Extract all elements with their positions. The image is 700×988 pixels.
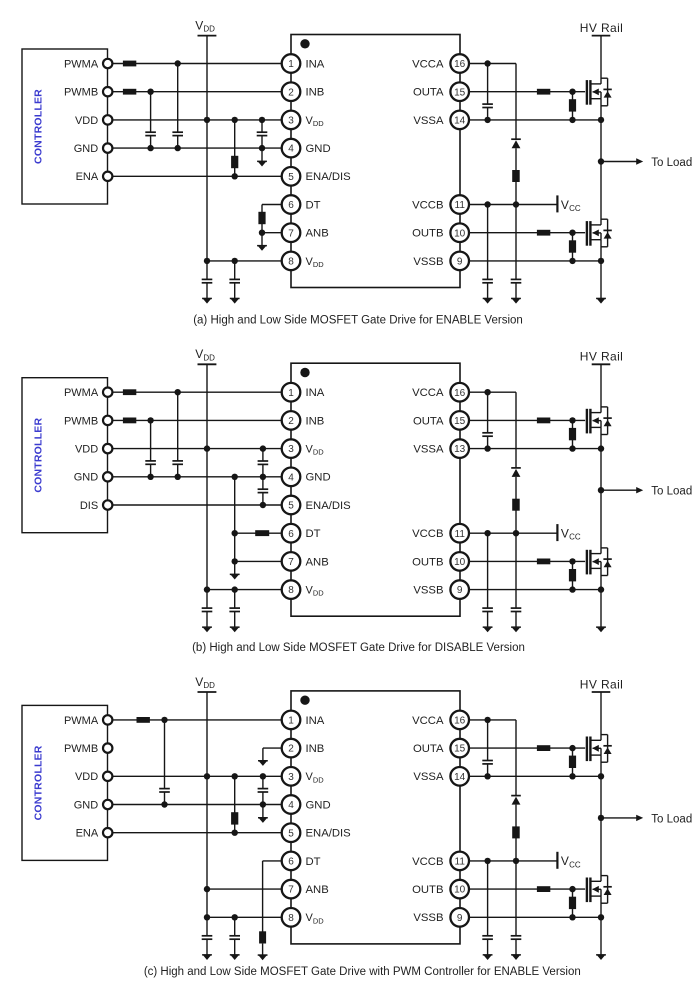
svg-text:5: 5 [288,172,294,183]
svg-text:To Load: To Load [651,157,692,169]
svg-text:VCCA: VCCA [412,715,444,727]
svg-text:CONTROLLER: CONTROLLER [33,418,45,493]
svg-text:VSSA: VSSA [413,771,444,783]
svg-text:DD: DD [313,448,324,457]
svg-text:11: 11 [455,857,466,868]
svg-text:OUTA: OUTA [413,743,444,755]
svg-text:DD: DD [313,260,324,269]
svg-text:3: 3 [288,772,294,783]
svg-text:HV Rail: HV Rail [580,350,623,364]
svg-text:OUTA: OUTA [413,87,444,99]
svg-text:9: 9 [457,585,463,596]
svg-text:VCCB: VCCB [412,199,443,211]
svg-text:INB: INB [306,87,325,99]
svg-text:ENA/DIS: ENA/DIS [306,500,352,512]
svg-text:To Load: To Load [651,486,692,498]
svg-text:6: 6 [288,529,294,540]
svg-text:CONTROLLER: CONTROLLER [33,89,45,164]
svg-text:VCCB: VCCB [412,856,443,868]
svg-text:GND: GND [74,799,99,811]
svg-text:To Load: To Load [651,813,692,825]
svg-text:PWMA: PWMA [64,387,99,399]
svg-text:DT: DT [306,528,321,540]
svg-text:VCCA: VCCA [412,387,444,399]
svg-text:OUTB: OUTB [412,884,443,896]
svg-text:ENA/DIS: ENA/DIS [306,171,352,183]
svg-text:OUTB: OUTB [412,228,443,240]
svg-text:6: 6 [288,857,294,868]
svg-text:CC: CC [569,204,581,213]
svg-text:VDD: VDD [75,771,98,783]
svg-text:VDD: VDD [75,115,98,127]
svg-text:VCCB: VCCB [412,528,443,540]
svg-text:4: 4 [288,472,294,483]
svg-text:8: 8 [288,585,294,596]
svg-text:GND: GND [306,799,331,811]
svg-text:7: 7 [288,557,294,568]
svg-text:16: 16 [454,388,466,399]
svg-text:(a) High and Low Side MOSFET G: (a) High and Low Side MOSFET Gate Drive … [193,315,523,327]
svg-text:5: 5 [288,501,294,512]
svg-text:GND: GND [74,472,99,484]
svg-text:GND: GND [74,143,99,155]
svg-text:CC: CC [569,860,581,869]
svg-text:13: 13 [454,444,466,455]
svg-text:16: 16 [454,716,466,727]
svg-text:11: 11 [455,529,466,540]
svg-text:ENA/DIS: ENA/DIS [306,828,352,840]
svg-text:ENA: ENA [76,828,99,840]
svg-text:2: 2 [288,416,294,427]
svg-text:PWMA: PWMA [64,715,99,727]
svg-text:OUTB: OUTB [412,556,443,568]
svg-text:PWMA: PWMA [64,58,99,70]
svg-text:1: 1 [288,388,294,399]
svg-text:INA: INA [306,58,325,70]
svg-text:GND: GND [306,143,331,155]
svg-text:9: 9 [457,257,463,268]
svg-text:OUTA: OUTA [413,415,444,427]
svg-text:14: 14 [454,116,466,127]
svg-text:6: 6 [288,200,294,211]
svg-text:V: V [195,347,203,361]
svg-text:16: 16 [454,59,466,70]
svg-text:1: 1 [288,59,294,70]
svg-text:V: V [561,854,569,868]
svg-text:ANB: ANB [306,884,329,896]
svg-text:14: 14 [454,772,466,783]
svg-text:DD: DD [313,119,324,128]
svg-text:HV Rail: HV Rail [580,21,623,35]
svg-text:9: 9 [457,913,463,924]
svg-text:DD: DD [203,681,215,690]
svg-text:V: V [561,198,569,212]
svg-text:10: 10 [454,228,466,239]
svg-text:INA: INA [306,715,325,727]
svg-text:DD: DD [313,775,324,784]
svg-text:HV Rail: HV Rail [580,677,623,691]
svg-text:DD: DD [313,589,324,598]
svg-text:CONTROLLER: CONTROLLER [33,745,45,820]
svg-text:(b) High and Low Side MOSFET G: (b) High and Low Side MOSFET Gate Drive … [192,642,525,654]
svg-text:V: V [195,19,203,33]
svg-text:INB: INB [306,415,325,427]
svg-text:4: 4 [288,144,294,155]
svg-text:PWMB: PWMB [64,415,98,427]
svg-text:15: 15 [454,416,466,427]
svg-text:3: 3 [288,116,294,127]
svg-text:10: 10 [454,885,466,896]
svg-text:DT: DT [306,199,321,211]
svg-text:11: 11 [455,200,466,211]
svg-text:DT: DT [306,856,321,868]
svg-text:ANB: ANB [306,228,329,240]
svg-text:DD: DD [313,916,324,925]
svg-text:VSSA: VSSA [413,115,444,127]
svg-text:10: 10 [454,557,466,568]
svg-text:8: 8 [288,257,294,268]
svg-text:DIS: DIS [80,500,98,512]
svg-text:CC: CC [569,533,581,542]
svg-text:7: 7 [288,228,294,239]
svg-text:VDD: VDD [75,444,98,456]
svg-text:4: 4 [288,800,294,811]
svg-text:ENA: ENA [76,171,99,183]
svg-text:15: 15 [454,744,466,755]
svg-text:3: 3 [288,444,294,455]
svg-text:VSSB: VSSB [413,585,443,597]
svg-text:DD: DD [203,353,215,362]
svg-text:2: 2 [288,87,294,98]
svg-text:GND: GND [306,472,331,484]
svg-text:VSSA: VSSA [413,444,444,456]
svg-text:PWMB: PWMB [64,743,98,755]
svg-text:INA: INA [306,387,325,399]
svg-text:(c) High and Low Side MOSFET G: (c) High and Low Side MOSFET Gate Drive … [144,966,581,978]
svg-text:ANB: ANB [306,556,329,568]
svg-text:V: V [195,675,203,689]
svg-text:PWMB: PWMB [64,87,98,99]
svg-text:INB: INB [306,743,325,755]
svg-text:1: 1 [288,716,294,727]
svg-text:15: 15 [454,87,466,98]
svg-text:VCCA: VCCA [412,58,444,70]
svg-text:7: 7 [288,885,294,896]
svg-text:DD: DD [203,25,215,34]
svg-text:VSSB: VSSB [413,256,443,268]
svg-text:8: 8 [288,913,294,924]
svg-text:VSSB: VSSB [413,912,443,924]
svg-text:2: 2 [288,744,294,755]
svg-text:5: 5 [288,828,294,839]
svg-text:V: V [561,527,569,541]
